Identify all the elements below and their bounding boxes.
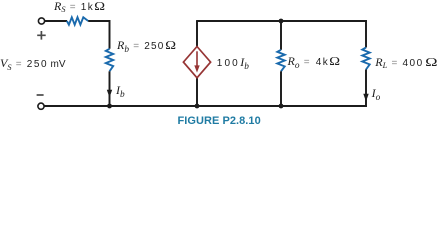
resistor RS (1 kOhm) zigzag xyxy=(67,17,88,24)
resistor Rb (250 Ohm) zigzag xyxy=(106,49,113,72)
current arrow Ib xyxy=(107,90,112,98)
junction dot Ro/top rail xyxy=(279,19,284,24)
dependent current source diamond 100Ib xyxy=(183,47,210,78)
junction dot diamond/bottom rail xyxy=(195,104,200,109)
plus sign of source xyxy=(37,31,46,40)
terminal + (top left circle) xyxy=(38,18,44,24)
wire Rb bottom to bottom rail xyxy=(109,71,111,106)
terminal - (bottom left circle) xyxy=(38,103,44,109)
dependent source branch wires xyxy=(196,21,198,106)
wire Ro bottom xyxy=(280,71,282,106)
label Rb = 250 Ohm xyxy=(117,39,174,52)
arrow inside diamond xyxy=(196,51,198,68)
label VS = 250 mV xyxy=(0,57,66,70)
minus sign of source xyxy=(37,94,44,96)
resistor Ro branch top wire xyxy=(280,21,282,50)
current arrow Io xyxy=(363,94,368,102)
label RL = 400 Ohm xyxy=(375,56,434,69)
label RS = 1 kOhm xyxy=(54,0,103,13)
caption FIGURE P2.8.10 xyxy=(178,115,261,127)
junction dot Ro/bottom rail xyxy=(279,104,284,109)
resistor Ro (4 kOhm) zigzag xyxy=(277,50,284,72)
resistor RL (400 Ohm) zigzag on right edge xyxy=(362,48,369,70)
wire from RS to corner and down to Rb xyxy=(88,21,109,49)
wire RL bottom to rail xyxy=(365,70,367,108)
bottom rail wire xyxy=(44,105,367,107)
right edge top wire to RL xyxy=(365,20,367,47)
junction dot Rb/bottom rail xyxy=(107,104,112,109)
label 100Ib xyxy=(217,56,249,69)
top rail of right mesh xyxy=(196,20,367,22)
label Ro = 4 kOhm xyxy=(288,55,339,68)
wire top from + terminal to resistor RS xyxy=(45,20,67,22)
label Io xyxy=(372,87,381,100)
label Ib xyxy=(116,84,125,97)
